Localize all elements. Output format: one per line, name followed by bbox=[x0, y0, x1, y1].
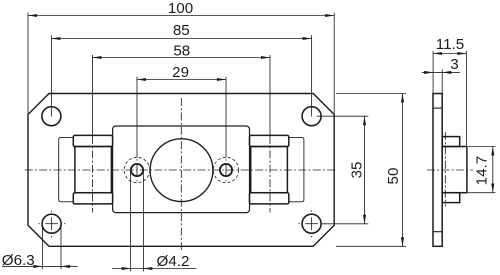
svg-text:14.7: 14.7 bbox=[474, 156, 491, 186]
svg-text:29: 29 bbox=[172, 64, 189, 81]
svg-text:58: 58 bbox=[173, 42, 190, 59]
svg-text:3: 3 bbox=[450, 56, 458, 73]
svg-text:50: 50 bbox=[385, 168, 402, 185]
svg-text:35: 35 bbox=[349, 162, 366, 179]
svg-text:Ø4.2: Ø4.2 bbox=[157, 253, 190, 270]
svg-text:11.5: 11.5 bbox=[436, 36, 464, 53]
svg-text:100: 100 bbox=[168, 0, 193, 17]
svg-text:Ø6.3: Ø6.3 bbox=[2, 252, 35, 269]
svg-text:85: 85 bbox=[173, 22, 190, 39]
